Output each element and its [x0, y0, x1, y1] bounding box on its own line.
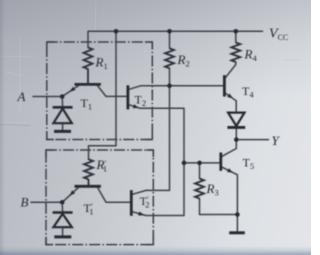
- svg-text:A: A: [17, 89, 26, 104]
- svg-text:R4: R4: [244, 47, 258, 64]
- svg-text:T′1: T′1: [84, 201, 94, 217]
- svg-text:T′2: T′2: [140, 194, 150, 210]
- svg-text:T1: T1: [81, 96, 93, 112]
- svg-text:R3: R3: [206, 181, 219, 198]
- svg-text:R1: R1: [95, 55, 108, 72]
- svg-text:VCC: VCC: [269, 27, 288, 43]
- svg-text:T4: T4: [242, 84, 254, 100]
- svg-text:T5: T5: [243, 156, 255, 172]
- svg-text:Y: Y: [272, 133, 281, 148]
- svg-text:R′1: R′1: [96, 157, 108, 174]
- svg-text:T2: T2: [135, 93, 147, 109]
- svg-text:R2: R2: [177, 52, 190, 69]
- svg-text:B: B: [21, 195, 29, 210]
